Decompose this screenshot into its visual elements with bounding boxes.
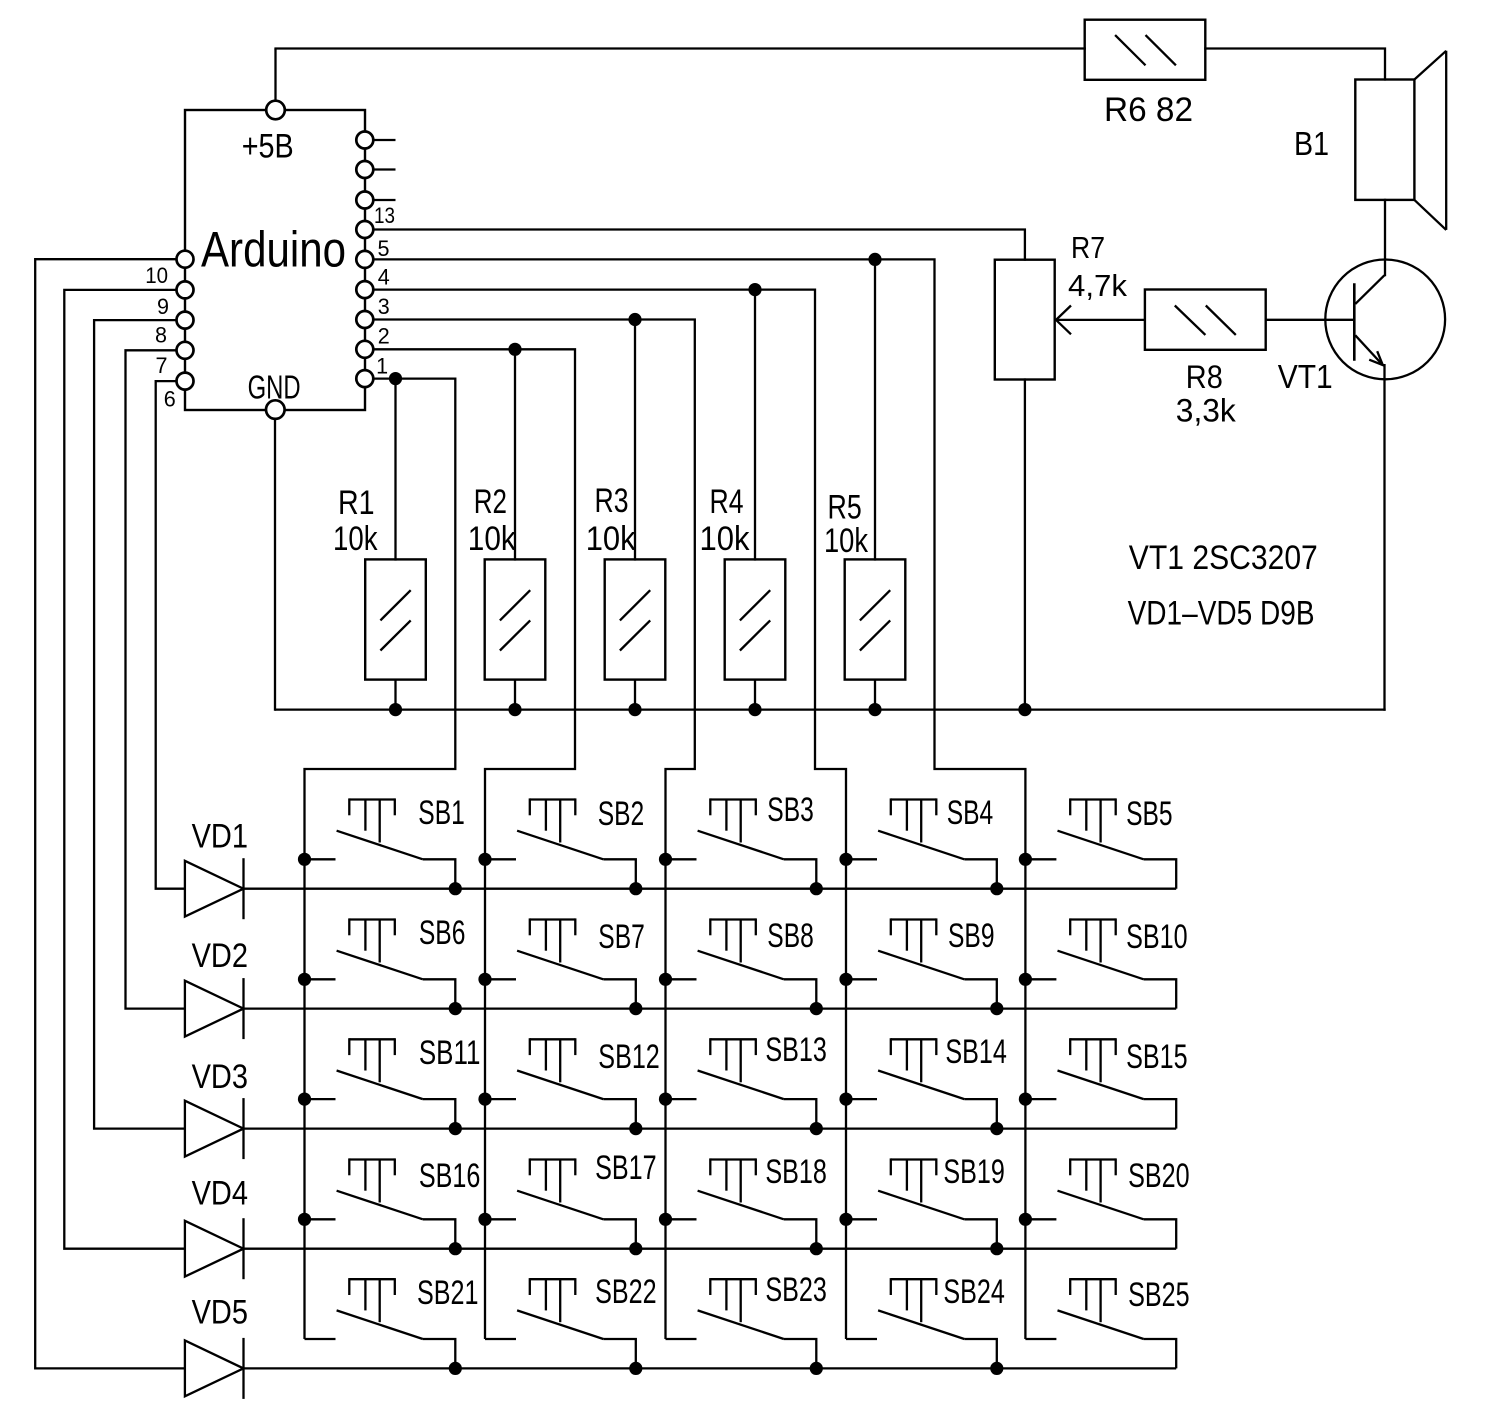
svg-text:SB13: SB13 — [765, 1031, 827, 1069]
Arduino left pin 7 circle — [177, 342, 194, 359]
Arduino body — [185, 110, 365, 410]
junction R7-ground bus — [1018, 703, 1031, 716]
keypad row 2 line — [244, 1007, 1177, 1009]
push-button SB24 — [846, 1273, 1005, 1375]
wire Arduino pin 6 to diode row — [156, 381, 185, 889]
wire R5 bottom to ground bus — [874, 679, 876, 710]
svg-text:VD2: VD2 — [192, 937, 248, 975]
push-button SB15 — [1019, 1038, 1188, 1129]
Arduino left pin 9 circle — [177, 281, 194, 298]
svg-text:10k: 10k — [333, 520, 378, 558]
transistor VT1 emitter arrow — [1369, 351, 1383, 365]
push-button SB9 — [839, 917, 1003, 1015]
transistor VT1 circle — [1325, 260, 1445, 380]
wire Arduino pin 5 to column — [365, 259, 1026, 1339]
svg-text:10k: 10k — [700, 520, 751, 558]
Arduino unused pin stub 3 — [365, 199, 396, 201]
svg-text:13: 13 — [374, 203, 395, 228]
Arduino right pin circle 1 — [356, 132, 373, 149]
diode VD1 triangle — [185, 861, 244, 917]
svg-text:R6 82: R6 82 — [1104, 91, 1193, 129]
svg-text:SB20: SB20 — [1128, 1157, 1190, 1195]
wire VT1 emitter down — [1383, 364, 1385, 711]
junction R5-ground bus — [868, 703, 881, 716]
svg-text:SB10: SB10 — [1126, 918, 1188, 956]
Arduino unused pin stub 1 — [365, 139, 396, 141]
junction pin 2 - R top — [508, 343, 521, 356]
Arduino right pin circle 9 — [356, 370, 373, 387]
svg-text:SB4: SB4 — [947, 794, 994, 832]
svg-text:SB19: SB19 — [943, 1153, 1005, 1191]
svg-text:SB22: SB22 — [595, 1273, 657, 1311]
svg-text:R5: R5 — [828, 489, 862, 527]
svg-text:VD1–VD5 D9B: VD1–VD5 D9B — [1128, 594, 1315, 632]
svg-text:5: 5 — [378, 236, 390, 261]
Arduino right pin circle 3 — [356, 192, 373, 209]
svg-text:SB9: SB9 — [948, 917, 995, 955]
svg-text:VD5: VD5 — [192, 1293, 248, 1331]
resistor R1 stripe 1 — [380, 590, 410, 620]
diode VD1 cathode bar — [242, 858, 244, 919]
resistor R5 stripe 1 — [860, 590, 890, 620]
wire pin to R1 top — [394, 379, 396, 561]
push-button SB11 — [298, 1034, 481, 1135]
push-button SB1 — [298, 794, 465, 895]
wire top rail to R6 — [274, 47, 1086, 49]
wire pin13 to R7 — [365, 230, 1025, 261]
resistor R1 stripe 2 — [380, 620, 410, 650]
wire R4 bottom to ground bus — [754, 679, 756, 710]
svg-text:SB18: SB18 — [765, 1153, 827, 1191]
wire pin to R3 top — [634, 320, 636, 561]
svg-text:3: 3 — [378, 294, 390, 319]
svg-text:SB1: SB1 — [418, 794, 465, 832]
resistor R3 stripe 2 — [620, 620, 650, 650]
push-button SB18 — [659, 1153, 827, 1255]
push-button SB13 — [659, 1031, 827, 1135]
wire R7 bottom to ground bus — [1024, 378, 1026, 709]
push-button SB21 — [305, 1274, 479, 1375]
svg-text:SB12: SB12 — [598, 1038, 660, 1076]
svg-text:R7: R7 — [1071, 230, 1105, 265]
svg-text:10: 10 — [145, 263, 168, 288]
junction pin 4 - R top — [748, 283, 761, 296]
wire pin to R5 top — [874, 259, 876, 560]
svg-text:R2: R2 — [474, 483, 507, 521]
wire +5B pin to top rail — [274, 49, 276, 102]
svg-text:R3: R3 — [595, 482, 629, 520]
svg-text:VD3: VD3 — [192, 1058, 248, 1096]
svg-text:R1: R1 — [338, 484, 375, 522]
svg-text:SB5: SB5 — [1126, 795, 1173, 833]
resistor R8 stripe 2 — [1206, 306, 1236, 335]
wire pin to R4 top — [754, 290, 756, 561]
push-button SB25 — [1025, 1276, 1189, 1368]
svg-text:2: 2 — [378, 323, 390, 348]
wire Arduino pin 9 to diode row — [64, 290, 185, 1249]
keypad row 1 line — [244, 888, 1177, 890]
wire R8 to VT1 base — [1265, 319, 1355, 321]
svg-text:SB23: SB23 — [765, 1271, 827, 1309]
transistor VT1 collector lead — [1355, 275, 1384, 304]
Arduino right pin circle 8 — [356, 341, 373, 358]
push-button SB4 — [839, 794, 1003, 895]
push-button SB2 — [478, 795, 644, 895]
potentiometer R7 body — [995, 260, 1055, 380]
wire Arduino pin 4 to column — [365, 290, 846, 1339]
svg-text:3,3k: 3,3k — [1176, 393, 1237, 429]
svg-text:SB7: SB7 — [598, 918, 645, 956]
svg-text:4,7k: 4,7k — [1068, 268, 1127, 303]
svg-text:SB2: SB2 — [598, 795, 645, 833]
diode VD4 cathode bar — [242, 1218, 244, 1279]
svg-text:SB24: SB24 — [943, 1273, 1005, 1311]
svg-text:VT1: VT1 — [1278, 358, 1333, 395]
push-button SB12 — [478, 1038, 659, 1135]
transistor VT1 base bar — [1353, 283, 1356, 361]
push-button SB3 — [659, 791, 823, 895]
wire Arduino pin 8 to diode row — [94, 320, 185, 1129]
junction pin 5 - R top — [868, 253, 881, 266]
potentiometer R7 wiper arrow — [1056, 306, 1071, 335]
svg-text:8: 8 — [155, 322, 167, 347]
wire R2 bottom to ground bus — [514, 679, 516, 710]
resistor R4 stripe 2 — [740, 620, 770, 650]
potentiometer R7 wiper wire — [1056, 319, 1146, 321]
resistor R8 stripe 1 — [1175, 306, 1206, 335]
Arduino right pin circle 5 — [356, 251, 373, 268]
resistor R2 stripe 2 — [500, 620, 530, 650]
svg-text:SB3: SB3 — [767, 791, 814, 829]
Arduino right pin circle 7 — [356, 311, 373, 328]
resistor R6 stripe 2 — [1146, 35, 1176, 65]
svg-text:SB17: SB17 — [595, 1149, 657, 1187]
resistor R6 body — [1085, 20, 1206, 80]
junction pin 3 - R top — [628, 313, 641, 326]
svg-text:SB16: SB16 — [419, 1157, 481, 1195]
wire R6 to speaker corner — [1204, 49, 1385, 81]
junction R4-ground bus — [748, 703, 761, 716]
svg-text:R4: R4 — [710, 483, 744, 521]
diode VD3 cathode bar — [242, 1098, 244, 1159]
wire Arduino pin 2 to column — [365, 349, 575, 1339]
resistor R8 body — [1145, 290, 1266, 350]
wire pin to R2 top — [514, 349, 516, 560]
svg-text:SB15: SB15 — [1126, 1038, 1188, 1076]
push-button SB10 — [1019, 918, 1188, 1009]
svg-text:7: 7 — [156, 353, 168, 378]
svg-text:VD4: VD4 — [192, 1175, 248, 1213]
wire R3 bottom to ground bus — [634, 679, 636, 710]
svg-text:4: 4 — [378, 264, 390, 289]
diode VD2 cathode bar — [242, 978, 244, 1039]
svg-text:SB25: SB25 — [1128, 1276, 1190, 1314]
svg-text:10k: 10k — [824, 522, 869, 560]
junction R2-ground bus — [508, 703, 521, 716]
push-button SB8 — [659, 917, 823, 1015]
resistor R5 stripe 2 — [860, 620, 890, 650]
keypad row 4 line — [244, 1248, 1177, 1250]
keypad row 3 line — [244, 1127, 1177, 1129]
svg-text:6: 6 — [164, 386, 176, 411]
Arduino right pin circle 4 — [356, 221, 373, 238]
push-button SB14 — [839, 1033, 1007, 1135]
push-button SB7 — [478, 918, 644, 1015]
wire GND pin down — [274, 408, 276, 711]
push-button SB5 — [1019, 795, 1176, 889]
wire Arduino pin 3 to column — [365, 320, 695, 1340]
resistor R3 body — [605, 559, 666, 679]
svg-text:Arduino: Arduino — [201, 222, 346, 278]
Arduino right pin circle 2 — [356, 161, 373, 178]
svg-text:VT1 2SC3207: VT1 2SC3207 — [1129, 539, 1318, 577]
resistor R6 stripe 1 — [1115, 35, 1145, 65]
svg-text:10k: 10k — [468, 520, 517, 558]
push-button SB23 — [666, 1271, 827, 1375]
diode VD5 triangle — [185, 1341, 244, 1397]
svg-text:SB21: SB21 — [417, 1274, 479, 1312]
svg-text:SB6: SB6 — [419, 914, 466, 952]
push-button SB22 — [485, 1273, 657, 1375]
junction R3-ground bus — [628, 703, 641, 716]
resistor R2 body — [485, 559, 546, 679]
resistor R2 stripe 1 — [500, 590, 530, 620]
diode VD2 triangle — [185, 981, 244, 1037]
svg-text:VD1: VD1 — [192, 818, 248, 856]
Arduino +5B pin — [266, 101, 285, 120]
speaker B1 cone mouth — [1445, 51, 1447, 230]
svg-text:9: 9 — [157, 294, 169, 319]
junction pin 1 - R top — [389, 372, 402, 385]
wire R1 bottom to ground bus — [394, 679, 396, 710]
resistor R4 stripe 1 — [740, 590, 770, 620]
speaker B1 box — [1355, 80, 1414, 200]
svg-text:10k: 10k — [586, 520, 637, 558]
Arduino GND pin — [266, 400, 285, 419]
diode VD3 triangle — [185, 1101, 244, 1157]
speaker B1 cone top — [1414, 51, 1446, 80]
junction R1-ground bus — [389, 703, 402, 716]
push-button SB17 — [478, 1149, 656, 1255]
wire B1 to VT1 collector — [1384, 199, 1386, 276]
svg-text:SB14: SB14 — [945, 1033, 1007, 1071]
push-button SB19 — [839, 1153, 1005, 1255]
svg-text:R8: R8 — [1186, 359, 1223, 395]
push-button SB6 — [298, 914, 466, 1015]
svg-text:SB8: SB8 — [767, 917, 814, 955]
diode VD5 cathode bar — [242, 1338, 244, 1399]
Arduino right pin circle 6 — [356, 281, 373, 298]
svg-text:+5B: +5B — [242, 127, 294, 165]
speaker B1 cone bottom — [1414, 200, 1446, 230]
svg-text:B1: B1 — [1294, 125, 1329, 162]
svg-text:SB11: SB11 — [419, 1034, 481, 1072]
ground bus — [275, 708, 1386, 710]
Arduino left pin 8 circle — [177, 312, 194, 329]
wire Arduino pin 10 to diode row — [35, 259, 185, 1368]
Arduino left pin 6 circle — [177, 373, 194, 390]
resistor R3 stripe 1 — [620, 590, 650, 620]
wire Arduino pin 7 to diode row — [126, 350, 186, 1008]
push-button SB16 — [298, 1157, 481, 1255]
svg-text:1: 1 — [376, 354, 388, 379]
transistor VT1 emitter lead — [1355, 335, 1383, 365]
resistor R4 body — [725, 559, 786, 679]
keypad row 5 line — [244, 1367, 1177, 1369]
wire Arduino pin 1 to column — [305, 379, 456, 1339]
resistor R1 body — [365, 559, 426, 679]
diode VD4 triangle — [185, 1221, 244, 1277]
Arduino left pin 10 circle — [177, 251, 194, 268]
resistor R5 body — [845, 559, 906, 679]
Arduino unused pin stub 2 — [365, 168, 396, 170]
push-button SB20 — [1019, 1157, 1190, 1249]
